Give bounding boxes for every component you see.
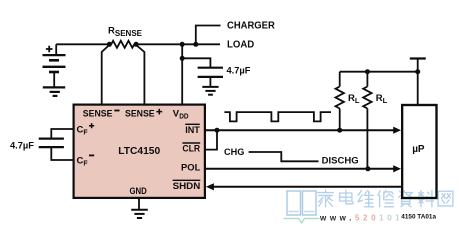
resistor RL right	[363, 72, 371, 169]
watermark char dian 电	[340, 190, 353, 204]
watermark char wei 维	[358, 191, 374, 207]
node rail junction power tap	[415, 69, 420, 74]
svg-text:CLR: CLR	[182, 144, 200, 155]
svg-text:DD: DD	[179, 111, 189, 120]
battery plus label	[46, 46, 53, 53]
svg-text:SENSE: SENSE	[125, 108, 155, 119]
node junction dots top rail	[107, 42, 198, 61]
wire SHDN line	[214, 186, 403, 188]
figure tag background	[399, 210, 438, 223]
waveform CHG/DISCHG step	[249, 152, 319, 161]
arrowhead INT into uP	[393, 127, 401, 134]
svg-text:LTC4150: LTC4150	[118, 146, 160, 157]
watermark char zi 资	[399, 191, 413, 207]
wire bypass cap branch	[182, 58, 210, 67]
watermark char jia 家	[318, 190, 333, 207]
svg-text:CHG: CHG	[224, 147, 244, 158]
wire CF- to cap	[51, 147, 73, 160]
svg-text:LOAD: LOAD	[227, 39, 254, 50]
battery BAT1	[43, 44, 66, 87]
svg-text:GND: GND	[130, 186, 147, 197]
ground (battery)	[43, 87, 65, 96]
svg-text:CHARGER: CHARGER	[227, 21, 276, 32]
watermark char wang 网	[438, 191, 453, 206]
watermark char liao 料	[417, 191, 433, 207]
waveform INT pulses	[224, 112, 331, 121]
watermark group	[284, 190, 453, 223]
arrowhead POL into uP	[393, 165, 401, 172]
watermark chinese characters	[318, 190, 453, 207]
svg-text:POL: POL	[181, 163, 200, 174]
power tap bar	[410, 57, 426, 59]
node INT-CLR junction	[215, 128, 220, 133]
wire power tap to uP	[417, 59, 419, 106]
svg-text:4150 TA01a: 4150 TA01a	[401, 213, 436, 220]
wire VDD drop	[181, 44, 183, 105]
node POL line right RL junction	[365, 166, 370, 171]
svg-text:4.7µF: 4.7µF	[10, 140, 34, 150]
svg-text:SENSE: SENSE	[83, 108, 113, 119]
ground (IC GND)	[131, 210, 148, 218]
wire INT line	[205, 129, 395, 131]
svg-text:µP: µP	[412, 144, 425, 155]
wire CHARGER stub	[196, 26, 221, 45]
wire SENSE- drop	[102, 45, 110, 105]
wire POL line	[205, 168, 395, 170]
resistor R_SENSE	[111, 41, 134, 48]
watermark book icon	[284, 191, 320, 223]
arrowhead SHDN into IC	[206, 183, 214, 190]
ground (top cap)	[202, 87, 218, 95]
svg-text:4.7µF: 4.7µF	[227, 65, 251, 75]
wire pull-up rail	[340, 71, 418, 73]
wire SENSE+ drop	[136, 45, 144, 105]
wire CF+ to cap	[51, 129, 73, 138]
wire CLR link to INT node	[205, 130, 217, 149]
wire main top rail left segment	[56, 43, 111, 45]
svg-text:INT: INT	[185, 125, 200, 136]
capacitor C1 4.7uF (top)	[198, 68, 223, 87]
microprocessor uP block	[402, 105, 436, 198]
node rail junction right RL	[365, 69, 370, 74]
watermark char xiu 修	[378, 191, 394, 207]
svg-text:SHDN: SHDN	[173, 181, 201, 192]
svg-text:DISCHG: DISCHG	[322, 156, 359, 167]
resistor RL left	[336, 72, 344, 131]
op IC U1 LTC4150 body	[74, 105, 205, 198]
redraw uP border over watermark	[402, 105, 436, 198]
wire GND stem	[138, 198, 140, 210]
node INT line left RL junction	[337, 128, 342, 133]
capacitor C2 4.7uF (left)	[39, 139, 64, 148]
wire main top rail right segment	[134, 43, 220, 45]
